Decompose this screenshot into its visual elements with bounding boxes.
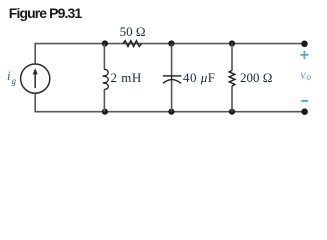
capacitor curved plate bbox=[163, 80, 181, 84]
wire inductor top lead bbox=[103, 44, 105, 70]
node H (bottom right terminal) bbox=[301, 108, 308, 115]
resistor R2 200 ohm bbox=[229, 44, 235, 112]
wire left vertical upper bbox=[34, 43, 36, 64]
node D (top right terminal) bbox=[301, 41, 308, 48]
capacitor C1 40 uF bbox=[163, 44, 182, 112]
svg-text:v: v bbox=[300, 68, 306, 82]
svg-text:g: g bbox=[12, 76, 17, 86]
plus sign vo bbox=[300, 51, 308, 59]
svg-text:o: o bbox=[306, 73, 311, 83]
svg-text:2 mH: 2 mH bbox=[111, 70, 142, 85]
inductor L1 2 mH bbox=[103, 44, 108, 112]
node A (top of inductor) bbox=[102, 40, 108, 46]
node E (bottom of inductor) bbox=[102, 109, 108, 115]
wire capacitor bottom lead bbox=[171, 80, 173, 112]
capacitor flat plate bbox=[163, 75, 182, 77]
svg-text:50 Ω: 50 Ω bbox=[120, 24, 146, 39]
wire top horizontal bbox=[35, 43, 304, 45]
wire inductor bottom lead bbox=[103, 89, 105, 112]
wire capacitor top lead bbox=[171, 44, 173, 76]
svg-text:Figure P9.31: Figure P9.31 bbox=[9, 5, 83, 21]
resistor R1 50 ohm bbox=[123, 41, 142, 47]
wire bottom horizontal bbox=[35, 111, 304, 113]
node F (bottom of capacitor) bbox=[168, 109, 174, 115]
node B (top of capacitor) bbox=[168, 40, 174, 46]
svg-text:200 Ω: 200 Ω bbox=[240, 70, 272, 85]
current source arrow bbox=[33, 68, 38, 88]
minus sign vo bbox=[301, 100, 308, 102]
node C (top of 200 ohm) bbox=[229, 40, 235, 46]
wire 200 ohm top lead bbox=[231, 44, 233, 71]
capacitor top lead stub through plate bbox=[171, 76, 173, 79]
wire left vertical lower bbox=[34, 93, 36, 112]
svg-text:i: i bbox=[7, 69, 11, 83]
node G (bottom of 200 ohm) bbox=[229, 109, 235, 115]
current source ig circle bbox=[21, 64, 50, 93]
wire 200 ohm bottom lead bbox=[231, 86, 233, 112]
svg-text:40 μF: 40 μF bbox=[183, 70, 216, 85]
